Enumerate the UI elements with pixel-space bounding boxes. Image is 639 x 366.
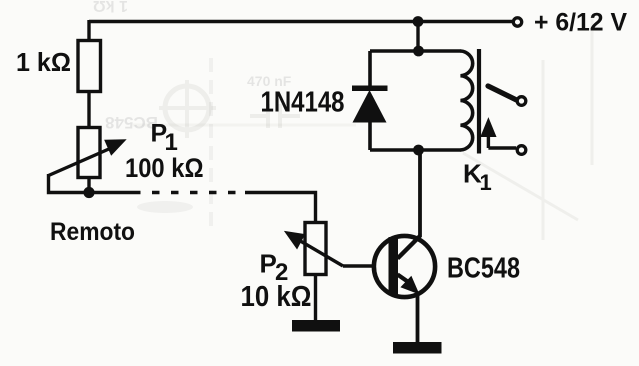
svg-text:1: 1 (480, 170, 492, 195)
potentiometer P2 wiper arrow (285, 232, 343, 267)
wire top rail (89, 20, 512, 23)
relay loop top wire (370, 49, 461, 53)
node junction relay bottom (413, 145, 424, 156)
potentiometer P2 body (305, 223, 326, 275)
terminal +V circle (513, 18, 521, 26)
svg-text:10 kΩ: 10 kΩ (241, 281, 312, 313)
relay contact terminal bottom (517, 146, 526, 155)
wire to P2 (245, 193, 316, 224)
potentiometer P1 body (78, 128, 100, 178)
node junction P1 bottom (83, 187, 94, 198)
wire P2 bottom to ground (314, 275, 317, 322)
svg-text:Remoto: Remoto (50, 218, 135, 246)
transistor Q1 circle (374, 236, 435, 297)
potentiometer P1 wiper arrow (49, 140, 126, 176)
svg-text:100 kΩ: 100 kΩ (125, 153, 204, 183)
svg-text:1N4148: 1N4148 (261, 87, 345, 119)
wire R1 to P1 (87, 92, 90, 128)
diode D1 triangle (353, 90, 387, 123)
wire P1 bottom to node (87, 178, 90, 193)
ghost strip and smudges (decorative) (133, 58, 356, 232)
svg-text:+ 6/12 V: + 6/12 V (534, 9, 627, 37)
ghost bleed-through capacitor (decorative) (250, 104, 300, 128)
ground bar P2 (292, 320, 340, 332)
ghost bleed-through circle (decorative) (159, 80, 216, 138)
wire collector up to relay (418, 151, 422, 237)
svg-text:1 kΩ: 1 kΩ (93, 0, 128, 14)
wire emitter down (416, 292, 420, 343)
resistor R1 (78, 41, 101, 92)
wire junction to relay loop (416, 22, 419, 52)
transistor Q1 emitter stroke with arrow (398, 275, 419, 294)
svg-text:BC548: BC548 (447, 253, 520, 285)
relay K1 core bar (477, 49, 481, 154)
relay contact terminal top (517, 97, 526, 106)
node junction relay top (413, 46, 424, 57)
wire wiper hook down-left (49, 174, 134, 193)
wire dashed remote link (133, 191, 247, 195)
ghost text marks (decorative) (93, 0, 292, 132)
relay switch lever (488, 86, 517, 100)
svg-text:1: 1 (165, 129, 178, 156)
transistor Q1 base bar (389, 237, 399, 295)
svg-text:1 kΩ: 1 kΩ (16, 47, 71, 77)
wire base (343, 264, 390, 267)
node junction top rail (413, 16, 424, 27)
transistor Q1 collector stroke (398, 236, 421, 259)
ground bar emitter (393, 342, 442, 354)
relay contact wire bottom (488, 146, 516, 149)
relay actuation arrow (481, 119, 496, 149)
relay loop bottom wire (370, 148, 461, 152)
relay loop left wire with diode gap (368, 51, 372, 150)
ghost lines right side (decorative) (463, 15, 592, 240)
diode D1 cathode bar (352, 86, 388, 92)
wire left drop to R1 (87, 20, 90, 41)
relay K1 coil (461, 51, 473, 150)
